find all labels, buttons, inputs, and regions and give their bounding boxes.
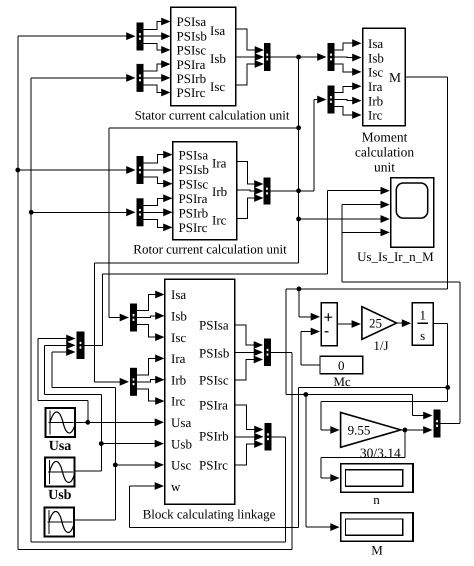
svg-text:Usb: Usb xyxy=(48,488,72,503)
wire: net M to display M xyxy=(306,395,340,532)
svg-text:M: M xyxy=(389,70,401,85)
junction: Is branch to linkage at (298.6,127.8) xyxy=(296,125,301,130)
wire: linkage outputs PSIsa PSIsb PSIsc to mux M4 xyxy=(235,325,264,380)
demux D1 (PSIs to stator unit) xyxy=(137,23,144,51)
svg-text:Moment: Moment xyxy=(362,130,408,145)
gain block 9.55 (30/3.14) xyxy=(341,413,401,448)
svg-text:PSIsc: PSIsc xyxy=(199,373,229,388)
sine wave source Usc xyxy=(45,508,75,537)
svg-text:0: 0 xyxy=(338,358,345,373)
junction: Is branch at (298.6,57) xyxy=(296,55,301,60)
svg-text:s: s xyxy=(420,328,425,343)
junction: w branch at (447.7,387.4) xyxy=(445,385,450,390)
demux D8 (Ir to moment unit) xyxy=(328,86,335,114)
svg-text:-: - xyxy=(324,323,329,340)
junction: n branch at (404.9,430) xyxy=(403,428,408,433)
svg-text:Ira: Ira xyxy=(171,351,186,366)
junction: Usa tap at (87.8,422.3) xyxy=(85,420,90,425)
svg-text:Block calculating linkage: Block calculating linkage xyxy=(143,507,276,522)
wire: rotor outputs Ira Irb Irc to mux M2 xyxy=(237,162,264,219)
svg-text:Isb: Isb xyxy=(368,50,384,65)
display block n xyxy=(341,464,413,493)
svg-text:9.55: 9.55 xyxy=(348,422,371,437)
svg-text:PSIsb: PSIsb xyxy=(177,28,207,43)
wire: demux D4 outputs to rotor inputs 4-6 xyxy=(144,194,173,231)
svg-text:Isc: Isc xyxy=(368,65,383,80)
wire: net Is branch leftward at y=127.8 then down x=108.9 into demux D5 xyxy=(109,128,299,322)
svg-text:Isa: Isa xyxy=(210,23,225,38)
svg-text:Isb: Isb xyxy=(210,51,226,66)
wire: demux D6 outputs to linkage inputs Ira Irb Irc xyxy=(137,355,165,405)
subsystem block U4 Block calculating linkage xyxy=(165,279,235,504)
junction: Usc tap at (115.3,464.9) xyxy=(113,463,118,468)
subsystem block U1 Stator current calculation unit xyxy=(171,7,236,106)
svg-text:PSIra: PSIra xyxy=(179,191,208,206)
svg-text:Isc: Isc xyxy=(171,330,186,345)
svg-text:PSIsa: PSIsa xyxy=(199,318,229,333)
wire: demux D5 outputs to linkage inputs Isa Isb Isc xyxy=(137,291,165,341)
demux D2 (PSIr to stator unit) xyxy=(137,64,144,92)
svg-text:PSIrc: PSIrc xyxy=(199,458,228,473)
svg-text:Rotor current calculation unit: Rotor current calculation unit xyxy=(133,242,287,257)
svg-text:Usc: Usc xyxy=(171,458,191,473)
constant block Mc value 0 xyxy=(320,356,363,373)
gain block 25 (1/J) xyxy=(362,307,397,340)
svg-text:M: M xyxy=(371,543,383,558)
junction: scope branch at (298.6,219) xyxy=(296,217,301,222)
mux M3 (Us sources) xyxy=(77,332,85,360)
wire: demux D2 outputs to stator inputs 4-6 xyxy=(144,60,171,96)
wire: demux D1 outputs to stator inputs 1-3 xyxy=(144,18,171,54)
mux M6 (w and n to scope) xyxy=(434,410,441,438)
junction: Usb tap at (101.3,443.6) xyxy=(99,441,104,446)
svg-text:Usa: Usa xyxy=(49,439,72,454)
wire: net Is - mux M1 output to moment demux D7 xyxy=(271,53,327,61)
svg-text:PSIsb: PSIsb xyxy=(199,346,229,361)
svg-text:w: w xyxy=(171,479,181,494)
wire: demux D8 outputs to moment inputs Ira Irb Irc xyxy=(335,82,362,119)
svg-text:Usb: Usb xyxy=(171,436,192,451)
svg-text:Ira: Ira xyxy=(212,155,227,170)
svg-text:Isc: Isc xyxy=(210,79,225,94)
wire: net w feedback to linkage input w xyxy=(129,387,447,527)
svg-text:PSIsc: PSIsc xyxy=(179,176,209,191)
mux M5 (PSIr signals) xyxy=(265,423,272,451)
demux D7 (Is to moment unit) xyxy=(328,43,335,71)
wire: Usc tap to linkage input Usc xyxy=(115,461,164,469)
svg-text:Usa: Usa xyxy=(171,415,191,430)
svg-text:PSIra: PSIra xyxy=(199,398,228,413)
mux M4 (PSIs signals) xyxy=(264,339,271,367)
svg-text:PSIrb: PSIrb xyxy=(177,71,207,86)
svg-text:Isb: Isb xyxy=(171,309,187,324)
wire: branch to scope input 3 xyxy=(299,215,390,223)
sine wave source Usa xyxy=(46,408,76,437)
wire: Usc bracket to mux M3 input 3 xyxy=(52,348,116,387)
wire: Usb source output riser x=101.3 xyxy=(75,395,102,471)
svg-text:Irb: Irb xyxy=(212,184,227,199)
junction: Ir branch at (298.6,190.8) xyxy=(296,188,301,193)
svg-text:25: 25 xyxy=(369,316,382,331)
subsystem block U3 Moment calculation unit xyxy=(363,28,406,125)
wire: Usb tap to linkage input Usb xyxy=(101,440,164,448)
wire: demux D7 outputs to moment inputs Isa Isb Isc xyxy=(335,39,362,76)
sine wave source Usb xyxy=(45,458,75,487)
demux D4 (PSIr to rotor unit) xyxy=(137,198,144,226)
junction: PSIr branch at (31.2,212.3) xyxy=(29,210,34,215)
wire: Usc source output riser x=115.3 xyxy=(74,387,115,520)
wire: net M branch down x=285.8 to row 394.4 and to mux M6 input 1 xyxy=(286,289,433,420)
wire: net Ir - mux M2 output toward moment demux D8 xyxy=(271,96,327,191)
label: Moment calculation unit xyxy=(355,130,414,175)
wire: M drop into sum + input xyxy=(299,289,320,321)
wire: net n - gain 9.55 output to mux M6 input 2 xyxy=(401,426,433,434)
svg-text:1/J: 1/J xyxy=(373,338,388,353)
svg-text:Irb: Irb xyxy=(368,93,383,108)
junction: M display branch at (305.8,394.5) xyxy=(303,392,308,397)
wire: linkage outputs PSIra PSIrb PSIrc to mux M5 xyxy=(235,405,264,465)
svg-text:PSIsa: PSIsa xyxy=(179,147,209,162)
svg-text:Irb: Irb xyxy=(171,372,186,387)
svg-text:Isa: Isa xyxy=(171,287,186,302)
wire: net Ir feedback left y=262.8 and down x=94.7 into demux D6 xyxy=(95,263,299,386)
svg-text:Irc: Irc xyxy=(171,394,186,409)
subsystem block U2 Rotor current calculation unit xyxy=(173,142,237,240)
wire: gain 25 output to integrator xyxy=(397,319,412,327)
wire: net PSIs - mux M4 output down and around to demux D1 and D3 xyxy=(18,32,292,549)
wire: demux D3 outputs to rotor inputs 1-3 xyxy=(144,151,173,188)
svg-text:PSIsc: PSIsc xyxy=(177,43,207,58)
demux D6 (Ir to linkage block) xyxy=(130,368,137,396)
svg-text:PSIra: PSIra xyxy=(177,57,206,72)
mux M1 (stator currents Is) xyxy=(264,43,271,71)
wire: mux M6 output to scope inputs 2 and 4 xyxy=(342,201,460,424)
svg-text:Irc: Irc xyxy=(212,212,227,227)
svg-text:Mc: Mc xyxy=(333,374,351,389)
wire: net Is/Ir vertical x=298.6 from y=57 to y=262.8 xyxy=(298,57,300,263)
svg-text:Ira: Ira xyxy=(368,79,383,94)
wire: net Us - mux M3 output to scope input 1 xyxy=(85,187,390,345)
wire: PSIs branch to demux D3 xyxy=(18,166,136,174)
svg-text:Isa: Isa xyxy=(368,36,383,51)
wire: PSIr branch to demux D4 xyxy=(31,208,135,216)
wire: net M - moment output to sum input + xyxy=(286,77,448,289)
wire: net PSIr - mux M5 output down and around to demux D2 and D4 xyxy=(31,74,285,542)
svg-text:unit: unit xyxy=(374,160,395,175)
svg-text:n: n xyxy=(373,492,380,507)
display block M xyxy=(341,513,413,542)
svg-text:Stator current calculation uni: Stator current calculation unit xyxy=(135,108,290,123)
svg-text:30/3.14: 30/3.14 xyxy=(360,446,401,461)
demux D3 (PSIs to rotor unit) xyxy=(137,156,144,184)
svg-text:PSIsb: PSIsb xyxy=(179,162,209,177)
svg-text:Us_Is_Ir_n_M: Us_Is_Ir_n_M xyxy=(357,249,434,264)
wire: Usb bracket to mux M3 input 2 xyxy=(45,341,102,394)
scope block Us_Is_Ir_n_M xyxy=(391,178,434,248)
svg-text:Irc: Irc xyxy=(368,108,383,123)
junction: PSIs branch at (17.8,170) xyxy=(15,168,20,173)
junction: M branch to sum at (298.9,288.9) xyxy=(297,287,302,292)
demux D5 (Is to linkage block) xyxy=(130,304,137,332)
wire: net w - integrator output down x=447.7 xyxy=(433,324,447,402)
integrator block 1/s xyxy=(412,303,433,346)
wire: Usa source output to linkage input Usa xyxy=(75,418,164,426)
wire: sum output to gain 25 xyxy=(337,320,361,328)
wire: net w to gain 9.55 input xyxy=(321,402,448,434)
sum block S1 (+/-) xyxy=(321,303,337,346)
wire: stator outputs Isa Isb Isc to mux M1 xyxy=(236,29,265,85)
svg-text:PSIsa: PSIsa xyxy=(177,14,207,29)
mux M2 (rotor currents Ir) xyxy=(264,178,271,205)
wire: constant Mc to sum input - xyxy=(301,328,320,365)
svg-text:1: 1 xyxy=(419,308,426,323)
svg-text:PSIrb: PSIrb xyxy=(179,206,209,221)
wire: Usa tap bracket up to mux M3 input 1 xyxy=(38,335,88,423)
svg-text:calculation: calculation xyxy=(355,145,414,160)
svg-text:PSIrc: PSIrc xyxy=(179,220,208,235)
svg-text:PSIrb: PSIrb xyxy=(199,429,229,444)
svg-text:PSIrc: PSIrc xyxy=(177,85,206,100)
wire: net n to display n xyxy=(321,430,405,482)
